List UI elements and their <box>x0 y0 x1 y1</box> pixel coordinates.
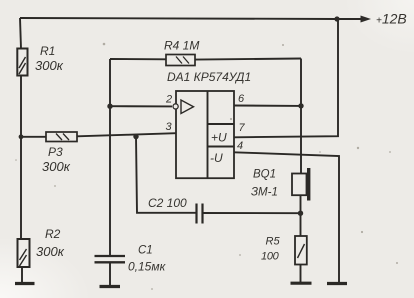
svg-text:R5: R5 <box>266 236 281 248</box>
svg-text:R2: R2 <box>45 227 61 241</box>
svg-text:300к: 300к <box>36 244 65 259</box>
svg-text:ЗМ-1: ЗМ-1 <box>251 187 278 199</box>
svg-text:BQ1: BQ1 <box>253 169 276 181</box>
svg-text:0,15мк: 0,15мк <box>128 260 167 274</box>
svg-text:DA1 КР574УД1: DA1 КР574УД1 <box>167 70 251 84</box>
svg-text:+U: +U <box>211 131 227 145</box>
svg-text:100: 100 <box>261 251 280 263</box>
svg-text:6: 6 <box>238 93 245 105</box>
svg-text:С2 100: С2 100 <box>148 196 187 210</box>
svg-text:300к: 300к <box>35 58 64 73</box>
svg-text:R1: R1 <box>40 44 55 58</box>
svg-text:4: 4 <box>237 140 243 152</box>
svg-text:3: 3 <box>166 121 173 133</box>
svg-text:С1: С1 <box>138 245 153 257</box>
svg-text:R4 1M: R4 1M <box>164 39 199 53</box>
svg-text:2: 2 <box>165 94 172 106</box>
svg-text:Р3: Р3 <box>48 145 63 159</box>
svg-text:-U: -U <box>210 151 223 165</box>
svg-text:300к: 300к <box>42 159 71 174</box>
svg-text:7: 7 <box>239 122 246 134</box>
